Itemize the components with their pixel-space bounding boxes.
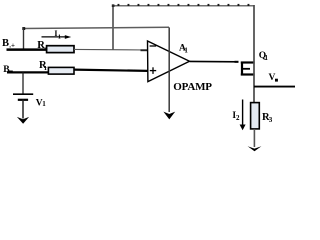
svg-text:OPAMP: OPAMP: [173, 81, 212, 93]
svg-text:3: 3: [269, 116, 273, 124]
svg-text:1: 1: [44, 65, 47, 72]
svg-text:1: 1: [184, 46, 188, 54]
svg-text:B: B: [3, 65, 10, 75]
svg-text:2: 2: [236, 114, 240, 122]
svg-text:o: o: [44, 45, 47, 52]
svg-text:1: 1: [58, 34, 61, 41]
svg-text:.+: .+: [9, 41, 15, 49]
svg-text:B: B: [2, 38, 9, 49]
svg-text:V: V: [269, 73, 276, 83]
svg-text:1: 1: [265, 54, 269, 62]
svg-text:1: 1: [42, 100, 46, 108]
